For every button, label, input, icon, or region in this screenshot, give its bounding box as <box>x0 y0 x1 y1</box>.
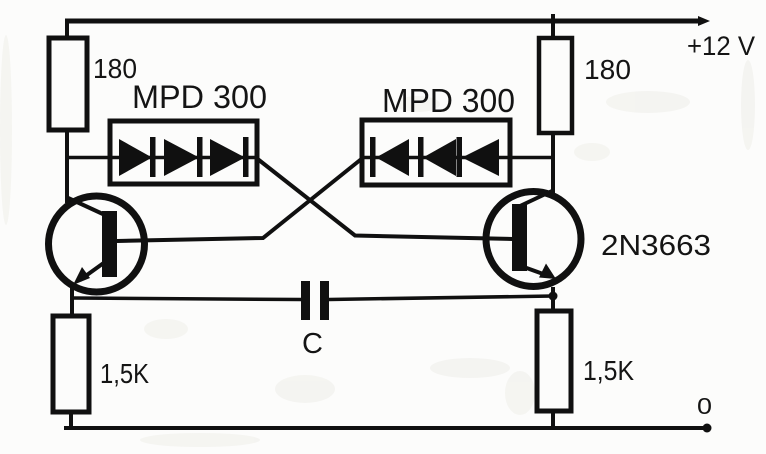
wire Q1 emitter node to capacitor C left plate <box>72 298 301 300</box>
svg-text:180: 180 <box>93 53 137 84</box>
svg-text:MPD 300: MPD 300 <box>382 82 515 119</box>
svg-text:2N3663: 2N3663 <box>601 230 711 262</box>
svg-text:+12 V: +12 V <box>687 31 755 61</box>
wire R3 bottom to ground rail <box>69 410 73 429</box>
power label +12V <box>687 31 755 61</box>
wire node A to left diode box input <box>65 156 112 160</box>
wire bottom rail 0V <box>64 426 704 430</box>
node bottom rail right end <box>703 424 712 433</box>
capacitor C <box>301 281 329 320</box>
diode D1 <box>119 137 156 177</box>
diode D3 <box>210 137 249 177</box>
wire U2 output to collector node of Q2 <box>510 156 554 160</box>
node Q2 emitter junction <box>549 292 558 301</box>
transistor Q2 <box>486 190 581 287</box>
wire Q2 emitter down to R4 <box>551 287 555 313</box>
diode D5 <box>418 137 456 177</box>
svg-text:1,5K: 1,5K <box>100 358 149 389</box>
resistor R3 1.5K <box>53 316 89 412</box>
resistor R4 1.5K <box>537 311 571 411</box>
wire stub rail to R2 top <box>551 14 555 40</box>
part label 2N3663 (Q2) <box>601 230 711 262</box>
wire Q2 collector up to R2 <box>551 131 555 193</box>
svg-text:C: C <box>302 328 323 360</box>
value label 180 (R2) <box>584 54 631 85</box>
label MPD 300 (U1) <box>132 79 267 115</box>
wire top rail +12V <box>65 19 704 24</box>
diode D6 <box>457 137 500 177</box>
value label 1,5K (R3) <box>100 358 149 389</box>
wire R1 bottom down to Q1 collector <box>65 128 69 203</box>
value label C <box>302 328 323 360</box>
wire cross-coupling U2 input to Q1 base <box>117 159 362 242</box>
diode D2 <box>164 137 203 177</box>
svg-text:MPD 300: MPD 300 <box>132 79 267 115</box>
wire stub rail to R1 top <box>65 19 69 40</box>
value label 1,5K (R4) <box>583 355 634 386</box>
diode array U1 MPD300 box <box>110 121 257 184</box>
ground label 0 <box>697 393 712 419</box>
resistor R1 180 <box>49 38 87 130</box>
svg-text:0: 0 <box>697 393 712 419</box>
svg-text:180: 180 <box>584 54 631 85</box>
wire capacitor C right plate to Q2 emitter node <box>329 296 553 300</box>
diode D4 <box>370 137 409 177</box>
diode array U2 MPD300 box <box>362 120 510 185</box>
node top rail right end arrow <box>698 16 710 26</box>
transistor Q1 <box>49 196 145 292</box>
wire cross-coupling U1 output to Q2 base <box>257 159 513 240</box>
wire Q1 emitter down to R3 <box>70 287 74 318</box>
wire through U2 diodes <box>362 156 510 160</box>
resistor R2 180 <box>539 38 572 133</box>
value label 180 (R1) <box>93 53 137 84</box>
wire R4 bottom to ground rail <box>551 409 555 429</box>
svg-text:1,5K: 1,5K <box>583 355 634 386</box>
wire through U1 diodes <box>110 156 257 160</box>
label MPD 300 (U2) <box>382 82 515 119</box>
